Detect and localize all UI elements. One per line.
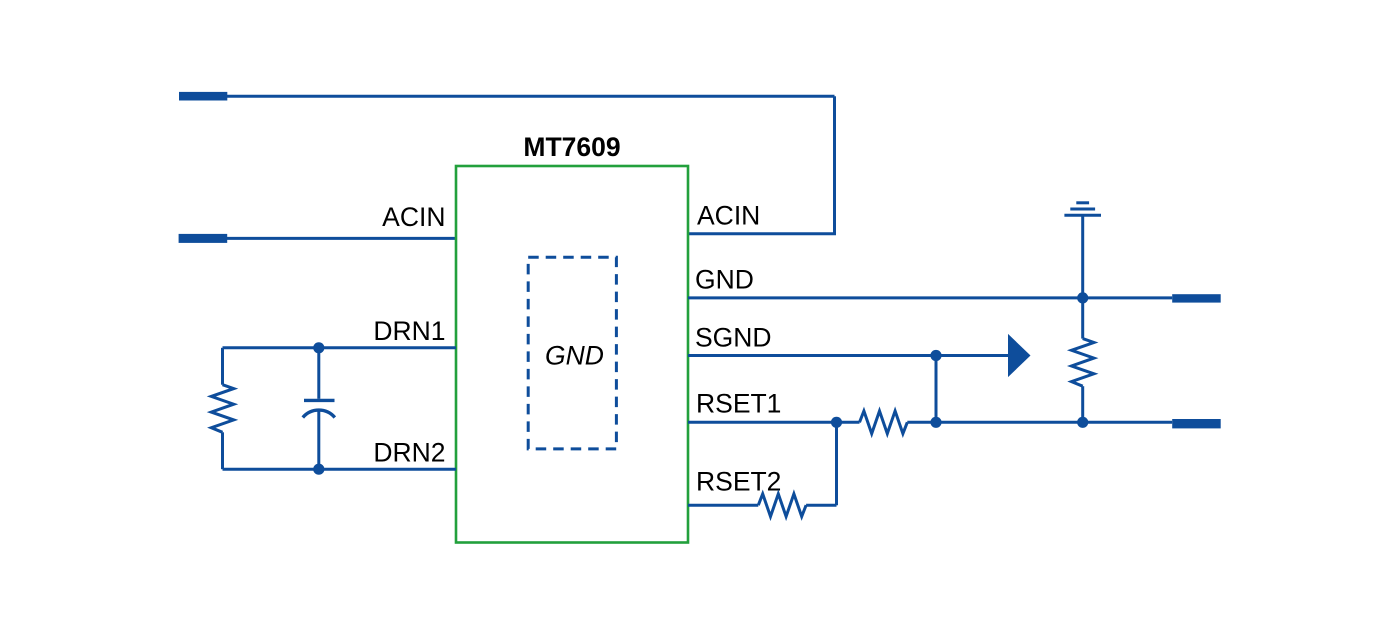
terminal T4 (RSET1 right thick bar) [1172,419,1221,428]
node GND pad (dashed box inside IC) [528,257,616,449]
svg-text:RSET1: RSET1 [696,389,781,419]
wire: GND net down to resistor [1081,298,1084,339]
svg-text:SGND: SGND [695,323,772,353]
wire: left vertical upper stub [221,348,224,385]
svg-text:MT7609: MT7609 [523,132,620,162]
resistor R4 (right vertical zigzag) [1072,339,1094,387]
resistor R1 (left vertical zigzag) [211,385,233,433]
terminal T2 (left ACIN thick bar) [179,234,228,243]
svg-text:DRN1: DRN1 [373,316,445,346]
wire: ACIN right pin to corner [688,232,836,235]
wire: GND pin to right terminal [688,296,1172,299]
ground symbol (earth) [1064,203,1101,216]
arrow (SGND output) [1008,334,1031,377]
wire: resistor down to RSET1 net [1081,386,1084,422]
svg-text:ACIN: ACIN [382,202,445,232]
wire: left ACIN terminal to IC [227,237,456,240]
junction dot (SGND drop / RSET1) [930,417,941,428]
capacitor C1 top stem [317,348,320,399]
capacitor C1 bottom stem [317,411,320,470]
svg-text:ACIN: ACIN [697,201,760,231]
capacitor C1 bottom curved plate [303,410,335,417]
junction dot (DRN1/C1) [313,342,324,353]
wire: RSET1 resistor to right terminal [907,421,1172,424]
wire: SGND pin [688,354,1009,357]
wire: RSET1 pin to resistor [688,421,860,424]
svg-text:DRN2: DRN2 [373,438,445,468]
svg-text:GND: GND [545,340,604,370]
junction dot (GND net) [1077,292,1088,303]
wire: DRN1 pin [223,346,457,349]
wire: top net from T1 to corner [227,95,835,98]
svg-text:RSET2: RSET2 [696,466,781,496]
junction dot (DRN2/C1) [313,464,324,475]
resistor R3 (RSET2 horizontal zigzag) [758,494,806,517]
wire: RSET2 riser up to RSET1 [835,422,838,505]
wire: RSET2 resistor to vertical riser [806,504,836,507]
wire: DRN2 pin [223,468,457,471]
wire: ground stem down to GND net [1081,216,1084,298]
resistor R2 (RSET1 horizontal zigzag) [860,411,908,434]
junction dot (SGND) [930,350,941,361]
capacitor C1 top plate [304,399,335,402]
wire: SGND drop to RSET1 [935,356,938,423]
op IC U1 MT7609 green outline [456,166,688,543]
junction dot (RSET1/RSET2) [831,417,842,428]
wire: vertical drop to ACIN right pin [833,96,836,234]
svg-text:GND: GND [695,265,754,295]
terminal T1 (top-left thick bar) [179,92,227,101]
wire: left vertical lower stub [221,432,224,469]
terminal T3 (GND right thick bar) [1172,294,1221,302]
junction dot (RSET1 net / R4) [1077,417,1088,428]
wire: RSET2 pin to resistor [688,504,758,507]
